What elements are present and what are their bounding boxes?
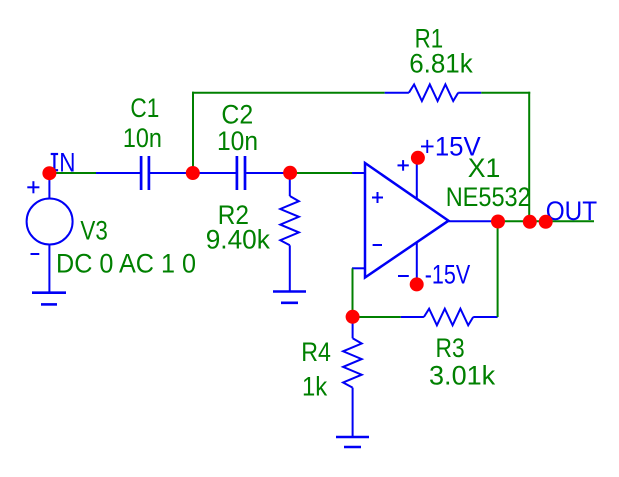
node dot right of output [523, 215, 537, 229]
node OUT dot [539, 215, 553, 229]
wire R3 right up to output [497, 221, 499, 317]
-V power pin [416, 242, 418, 284]
svg-text:NE5532: NE5532 [446, 182, 531, 212]
svg-text:10n: 10n [123, 123, 162, 153]
svg-text:6.81k: 6.81k [409, 49, 473, 79]
wire C2/R2 junction to op-amp + input [290, 172, 353, 174]
ground (V3) [32, 293, 66, 305]
svg-text:3.01k: 3.01k [429, 361, 496, 391]
wire R1 corner down to output node (over text) [528, 92, 530, 222]
node C2/R2/opamp junction dot [283, 166, 297, 180]
wire IN node to C1 left lead [49, 172, 96, 174]
svg-text:R3: R3 [436, 333, 465, 363]
wire inverting junction to R3 [353, 316, 401, 318]
svg-text:N: N [59, 147, 75, 177]
+ input marker [372, 197, 383, 199]
svg-text:9.40k: 9.40k [206, 224, 271, 254]
svg-text:C1: C1 [130, 93, 159, 123]
node output junction dot [491, 215, 505, 229]
svg-text:1k: 1k [302, 372, 328, 402]
ground (R4) [336, 437, 369, 447]
resistor R1 (horizontal, feedback) [385, 84, 482, 101]
- input marker [373, 244, 382, 246]
node inverting junction dot [346, 310, 360, 324]
wire feedback vertical left (junction up) [192, 92, 194, 173]
capacitor C1 [96, 156, 193, 190]
+V power pin [416, 158, 418, 199]
wire inverting input down [352, 268, 354, 317]
ground (R2) [273, 292, 306, 303]
op-amp U1 (X1 NE5532) [365, 163, 449, 278]
voltage source V3 [27, 173, 73, 293]
+ input stub pin [352, 172, 365, 174]
- input stub pin [352, 267, 365, 269]
node -15V pin dot [410, 277, 424, 291]
svg-text:C2: C2 [221, 99, 253, 129]
output stub pin [449, 220, 499, 222]
resistor R3 (horizontal) [401, 309, 498, 326]
node +15V pin dot [411, 151, 425, 165]
svg-text:-15V: -15V [425, 260, 471, 290]
node IN dot [42, 166, 56, 180]
wire output node to OUT [498, 220, 594, 222]
svg-text:V3: V3 [80, 215, 107, 245]
svg-text:X1: X1 [468, 153, 501, 183]
wire R1 right to corner [481, 92, 530, 94]
resistor R4 (vertical, to ground) [343, 317, 362, 437]
resistor R2 (vertical, to ground) [280, 173, 299, 292]
capacitor C2 [194, 156, 290, 190]
wire feedback top horizontal to R1 [192, 92, 385, 94]
svg-text:10n: 10n [217, 126, 258, 156]
node C1/C2 junction dot [186, 166, 200, 180]
svg-text:DC 0 AC 1 0: DC 0 AC 1 0 [56, 248, 196, 278]
svg-text:R4: R4 [301, 337, 331, 367]
svg-text:OUT: OUT [546, 196, 597, 226]
